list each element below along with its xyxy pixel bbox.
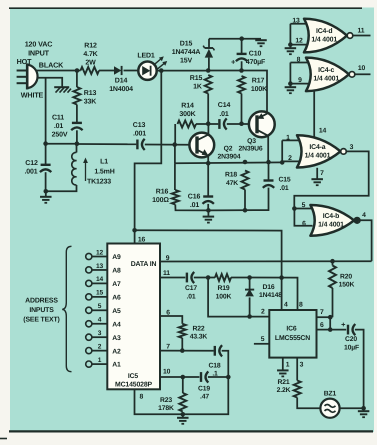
node IC4-a input junction — [280, 160, 285, 165]
wire R13 to C11 — [76, 105, 78, 123]
label MC145028P — [115, 381, 153, 388]
capacitor C14 — [219, 118, 226, 129]
resistor R21 — [294, 381, 301, 398]
resistor R15 — [205, 75, 212, 94]
svg-text:178K: 178K — [158, 405, 174, 412]
wire C18 right corner — [222, 351, 229, 377]
svg-text:2: 2 — [261, 308, 265, 315]
svg-text:A6: A6 — [112, 294, 121, 301]
svg-text:Q2: Q2 — [224, 146, 233, 153]
svg-text:R22: R22 — [192, 326, 204, 333]
label BLACK — [39, 61, 64, 70]
label 1 pin — [286, 362, 290, 369]
capacitor C12 — [40, 144, 51, 192]
wire address A5 — [92, 309, 107, 311]
node C16 bottom junction — [206, 208, 211, 213]
capacitor C16 — [203, 197, 214, 204]
svg-text:100Ω: 100Ω — [152, 197, 169, 204]
wire C19 right — [208, 376, 228, 378]
label 6 pin IC5 — [166, 310, 170, 317]
NOR gate IC4-c — [306, 58, 355, 92]
label R20 150K — [339, 273, 355, 288]
label LED1 — [137, 53, 155, 60]
label C14 .01 — [218, 102, 231, 118]
svg-text:5: 5 — [261, 336, 265, 343]
label D16 1N4148 — [259, 284, 282, 299]
svg-text:C11: C11 — [52, 115, 64, 122]
wire Q3 collector drop — [267, 136, 269, 162]
svg-text:.01: .01 — [219, 111, 229, 118]
label pin 2 — [288, 155, 292, 162]
svg-text:120 VAC: 120 VAC — [25, 40, 53, 49]
wire pin7-pin6 tie — [329, 317, 331, 329]
node R18 top junction — [243, 160, 248, 165]
svg-text:R16: R16 — [156, 189, 169, 196]
label R12 4.7K 2W — [83, 43, 97, 67]
label R18 47K — [225, 172, 238, 188]
ground IC4-c inputs — [285, 84, 297, 94]
svg-text:+: + — [231, 58, 236, 67]
IC box IC5 — [107, 244, 160, 390]
label ADDRESS INPUTS (SEE TEXT) — [23, 298, 59, 324]
resistor R17 — [238, 76, 245, 94]
svg-text:IC4-d: IC4-d — [316, 28, 332, 35]
wire white return — [46, 143, 77, 145]
node R14/base junction — [172, 142, 177, 147]
svg-text:BZ1: BZ1 — [324, 391, 337, 398]
svg-text:INPUTS: INPUTS — [29, 307, 54, 314]
node output 4 — [355, 218, 360, 223]
wire pin 6 — [317, 329, 331, 331]
wire D16 bottom — [249, 297, 251, 316]
svg-text:C10: C10 — [249, 51, 262, 58]
svg-text:11: 11 — [358, 27, 365, 34]
svg-text:D16: D16 — [262, 284, 274, 291]
svg-text:2W: 2W — [85, 60, 96, 67]
capacitor C11 — [71, 123, 82, 130]
node white/return T-junction — [43, 141, 48, 146]
wire pin 11 to C17 — [160, 277, 185, 279]
svg-text:43.3K: 43.3K — [190, 334, 208, 341]
label R19 100K — [216, 285, 232, 301]
svg-text:13: 13 — [96, 263, 104, 270]
wire address A4 — [92, 323, 107, 325]
label C15 .01 — [278, 177, 290, 193]
svg-text:300K: 300K — [179, 111, 195, 118]
svg-text:C16: C16 — [188, 194, 201, 201]
address input circle pin 4 — [86, 321, 92, 327]
wire C14 to Q3 base — [227, 123, 250, 125]
svg-text:7: 7 — [166, 343, 170, 350]
address input circle pin 15 — [86, 294, 92, 300]
svg-text:150K: 150K — [339, 282, 355, 289]
svg-text:R14: R14 — [181, 103, 194, 110]
wire R17 bottom — [241, 94, 243, 124]
label 120 VAC INPUT — [25, 40, 53, 58]
label pin 5 — [98, 303, 102, 310]
svg-text:2N39U6: 2N39U6 — [238, 146, 262, 153]
label A9 — [112, 254, 121, 261]
wire pin 5 — [294, 208, 312, 210]
svg-text:8: 8 — [140, 394, 144, 401]
wire neutral stub from plug — [37, 78, 63, 87]
node D16 bottom junction — [247, 314, 252, 319]
label 16 — [138, 236, 146, 243]
wire white drop — [45, 78, 47, 144]
label pin 12 — [96, 249, 104, 256]
wire pin 2 + bracket — [282, 140, 300, 162]
wire rail to Q3 collector — [242, 71, 268, 113]
wire buzzer right — [340, 407, 364, 409]
svg-text:250V: 250V — [52, 132, 68, 139]
svg-text:14: 14 — [96, 276, 104, 283]
svg-text:C15: C15 — [278, 177, 290, 184]
LED1 emission arrows — [154, 56, 168, 69]
svg-text:100K: 100K — [216, 294, 232, 301]
svg-text:A9: A9 — [112, 254, 121, 261]
resistor R16 — [172, 190, 179, 205]
wire C11 junction to C13 — [77, 143, 136, 145]
label pin 13 — [292, 17, 300, 24]
label A6 — [112, 294, 121, 301]
wire emitter rail — [175, 161, 282, 164]
svg-text:1N4004: 1N4004 — [109, 86, 133, 93]
wire pin 3 down — [296, 358, 298, 381]
label L1 1.5mH TK1233 — [87, 159, 115, 186]
label DATA IN — [131, 261, 157, 268]
svg-text:1/4 4001: 1/4 4001 — [311, 37, 337, 44]
wire address A3 — [92, 336, 107, 338]
wire Q2 collector — [207, 124, 209, 135]
panel bottom border — [9, 430, 373, 432]
node buzzer ground junction — [361, 406, 366, 411]
label pin 13 — [96, 263, 104, 270]
svg-text:14: 14 — [319, 127, 327, 134]
svg-text:IC5: IC5 — [128, 373, 138, 380]
label pin 3 — [98, 330, 102, 337]
svg-text:.01: .01 — [190, 202, 200, 209]
wire address A7 — [92, 282, 107, 284]
wire LED1 right — [157, 70, 209, 72]
label pin 5 — [302, 202, 306, 209]
wire C16 column — [207, 163, 209, 196]
svg-text:IC4-a: IC4-a — [309, 144, 325, 151]
svg-text:DATA IN: DATA IN — [131, 261, 157, 268]
svg-text:L1: L1 — [100, 159, 108, 166]
label A8 — [112, 268, 121, 275]
label pin 9 — [298, 77, 302, 84]
label 8 pin IC5 — [140, 394, 144, 401]
wire pin 12 + bracket — [290, 24, 306, 45]
svg-text:A7: A7 — [112, 281, 121, 288]
svg-text:1N4148: 1N4148 — [259, 292, 282, 299]
svg-text:R15: R15 — [190, 75, 203, 82]
svg-text:4: 4 — [284, 302, 288, 309]
node R23 bottom junction — [181, 412, 186, 417]
label R23 178K — [158, 397, 174, 412]
transistor Q3 — [249, 111, 275, 137]
label Q3 2N3906 — [238, 138, 262, 153]
svg-text:12: 12 — [295, 37, 303, 44]
svg-text:2.2K: 2.2K — [277, 387, 291, 394]
svg-text:LED1: LED1 — [137, 53, 155, 60]
svg-text:C17: C17 — [185, 285, 197, 292]
svg-text:R12: R12 — [84, 43, 97, 50]
label R22 43.3K — [190, 326, 208, 341]
wire pin4 drop — [281, 278, 283, 310]
label HOT — [17, 57, 32, 66]
label R14 300K — [179, 103, 195, 119]
svg-text:1N4744A: 1N4744A — [172, 49, 201, 56]
wire output 10 — [355, 73, 371, 75]
wire output 3 feedback — [294, 151, 368, 208]
wire pin 13 — [290, 23, 306, 25]
svg-text:2: 2 — [98, 343, 102, 350]
svg-text:A4: A4 — [112, 321, 121, 328]
wire C17 to R19 — [194, 277, 215, 279]
svg-text:15V: 15V — [180, 58, 192, 65]
svg-text:3: 3 — [98, 330, 102, 337]
wire D14 to LED1 — [124, 70, 139, 72]
label 4 — [362, 212, 366, 219]
label C20 plus — [341, 320, 346, 329]
node IC4-b input junction — [292, 206, 297, 211]
node emitter/C16 junction — [206, 161, 211, 166]
label pin 15 — [96, 290, 104, 297]
diode D16 1N4148 — [245, 289, 254, 296]
svg-text:.47: .47 — [200, 394, 209, 401]
ground top rail — [255, 40, 267, 46]
wire D16 column top — [249, 278, 251, 290]
capacitor C17 — [187, 272, 194, 283]
svg-text:33K: 33K — [84, 99, 96, 106]
label 5 pin — [261, 336, 265, 343]
wire R14 left drop — [174, 124, 176, 145]
wire trigger row — [208, 278, 269, 317]
ground C16 — [203, 210, 215, 222]
node pin6 junction — [328, 327, 333, 332]
wire top rail — [209, 38, 261, 40]
wire pin6 to C20 — [330, 329, 346, 331]
svg-text:WHITE: WHITE — [21, 91, 44, 100]
node R17/Q3 base junction — [239, 121, 244, 126]
address input circle pin 12 — [86, 253, 92, 259]
L1 adjustment arrow — [83, 158, 88, 182]
resistor R14 — [178, 121, 197, 128]
node R20 top junction — [330, 259, 335, 264]
node R22 bottom junction — [180, 348, 185, 353]
node pin4 column junction — [279, 275, 284, 280]
svg-text:R20: R20 — [340, 273, 352, 280]
svg-text:A2: A2 — [112, 348, 121, 355]
svg-text:MC145028P: MC145028P — [115, 381, 153, 388]
wire rail to C10 column — [208, 70, 241, 72]
svg-text:IC4-b: IC4-b — [323, 213, 339, 220]
svg-text:1K: 1K — [193, 84, 202, 91]
wire R22 bottom — [181, 338, 183, 351]
wire pin 5 stub — [254, 343, 269, 345]
svg-text:1/4 4001: 1/4 4001 — [318, 221, 344, 228]
label R16 100ohm — [152, 189, 169, 205]
svg-text:11: 11 — [163, 270, 170, 277]
wire R20 bottom — [330, 288, 332, 317]
label C19 .47 — [198, 385, 210, 400]
svg-text:C19: C19 — [198, 385, 210, 392]
wire C12 to L1 bottom — [46, 185, 77, 191]
svg-text:100K: 100K — [251, 86, 267, 93]
label pin 8 — [297, 56, 301, 63]
svg-text:A5: A5 — [112, 308, 121, 315]
address input circle pin 2 — [86, 348, 92, 354]
svg-text:R21: R21 — [277, 379, 289, 386]
wire pin 6 to R22 — [160, 316, 182, 324]
ground IC4-d inputs — [285, 45, 297, 55]
label R21 2.2K — [277, 379, 291, 394]
node IC4-c input ground junction — [288, 81, 293, 86]
label A5 — [112, 308, 121, 315]
svg-text:1/4 4001: 1/4 4001 — [313, 75, 339, 82]
svg-text:D14: D14 — [115, 78, 128, 85]
label pin 14 — [96, 276, 104, 283]
svg-text:.001: .001 — [24, 169, 37, 176]
buzzer BZ1 — [320, 399, 339, 418]
IC box IC6 — [269, 310, 316, 358]
wire VDD branch — [135, 230, 282, 277]
capacitor C18 — [215, 345, 222, 356]
address input circle pin 1 — [86, 361, 92, 367]
label A1 — [112, 362, 121, 369]
label LMC555CN — [275, 335, 310, 342]
wire R14 to C14 — [196, 123, 218, 125]
label A3 — [112, 335, 121, 342]
label 4 pin — [284, 302, 288, 309]
resistor R12 — [81, 67, 100, 74]
label R13 33K — [84, 90, 97, 106]
svg-text:4.7K: 4.7K — [83, 51, 97, 58]
label pin 7 IC4-a — [320, 170, 324, 177]
svg-text:.01: .01 — [187, 294, 196, 301]
svg-text:A1: A1 — [112, 362, 121, 369]
label 7 pin IC5 — [166, 343, 170, 350]
svg-text:IC4-c: IC4-c — [318, 67, 334, 74]
svg-text:A8: A8 — [112, 268, 121, 275]
wire R23 top — [182, 377, 184, 393]
wire Q2 emitter drop — [207, 156, 209, 164]
resistor R22 — [179, 324, 186, 338]
node C19 right junction — [226, 375, 231, 380]
wire pin 14 VDD — [313, 92, 315, 137]
svg-text:10µF: 10µF — [344, 344, 359, 351]
svg-text:4: 4 — [98, 317, 102, 324]
svg-text:D15: D15 — [180, 41, 193, 48]
svg-text:8: 8 — [299, 302, 303, 309]
label C20 10uF — [344, 336, 359, 352]
svg-text:16: 16 — [138, 236, 146, 243]
label Q2 2N3904 — [218, 146, 241, 161]
wire pin 9 rail — [160, 260, 372, 262]
svg-text:C12: C12 — [25, 160, 38, 167]
ground R23 — [177, 414, 189, 424]
svg-text:TK1233: TK1233 — [87, 179, 111, 186]
svg-text:1: 1 — [98, 357, 102, 364]
svg-text:47K: 47K — [226, 180, 238, 187]
resistor R20 — [329, 266, 336, 289]
NOR gate IC4-d — [304, 19, 353, 53]
node C12 bottom junction — [44, 189, 49, 194]
svg-text:7: 7 — [320, 309, 324, 316]
capacitor C15 — [263, 162, 274, 188]
label 11 pin — [163, 270, 170, 277]
svg-text:10: 10 — [163, 368, 171, 375]
wire R18 bottom — [244, 190, 246, 211]
label A2 — [112, 348, 121, 355]
node R15/Q2 collector junction — [206, 121, 211, 126]
wire bottom row to C15 — [209, 188, 269, 211]
node C11/L1 junction — [75, 141, 80, 146]
wire R13 top — [76, 71, 78, 88]
svg-text:ADDRESS: ADDRESS — [25, 298, 58, 305]
node R23 top junction — [181, 375, 186, 380]
svg-text:LMC555CN: LMC555CN — [275, 335, 310, 342]
label pin 2 — [98, 343, 102, 350]
label pin 12 — [295, 37, 303, 44]
resistor R23 — [179, 393, 186, 412]
wire output 11 — [353, 35, 371, 37]
wire R20 top — [332, 261, 334, 265]
svg-text:470µF: 470µF — [246, 59, 266, 66]
wire base-node drop to rail — [174, 145, 176, 164]
svg-text:C20: C20 — [345, 336, 357, 343]
svg-text:3: 3 — [300, 362, 304, 369]
svg-text:Q3: Q3 — [247, 138, 256, 145]
wire pin 6 + bracket — [294, 209, 312, 226]
label WHITE — [21, 91, 44, 100]
address inputs brace — [62, 246, 71, 371]
label C16 .01 — [188, 194, 201, 210]
wire C11 bottom — [76, 130, 78, 143]
label D15 1N4744A 15V — [172, 41, 201, 65]
node C10 top junction — [239, 36, 244, 41]
label R17 100K — [251, 78, 267, 94]
svg-text:R18: R18 — [225, 172, 237, 179]
label C11 .01 250V — [52, 115, 68, 139]
svg-text:IC6: IC6 — [286, 326, 296, 333]
node pin7/R20 junction — [328, 315, 333, 320]
label 10 pin IC5 — [163, 368, 171, 375]
svg-text:12: 12 — [96, 249, 104, 256]
wire R19 to D16 to pin4/8 column — [231, 278, 298, 311]
diode D14 — [114, 66, 122, 75]
label 9 — [166, 255, 170, 262]
transistor Q2 — [189, 133, 214, 158]
svg-text:1.5mH: 1.5mH — [94, 169, 114, 176]
wire address A8 — [92, 269, 107, 271]
svg-text:(SEE TEXT): (SEE TEXT) — [23, 316, 59, 323]
wire R12 to D14 — [99, 70, 114, 72]
wire pin 7 to C18 — [160, 350, 214, 352]
resistor R18 — [242, 171, 249, 190]
AC plug P1 — [17, 63, 38, 89]
svg-text:15: 15 — [96, 290, 104, 297]
svg-text:3: 3 — [350, 144, 354, 151]
wire zener stub top — [208, 39, 210, 49]
node C15 top junction — [266, 160, 271, 165]
node C10/R17 junction — [239, 68, 244, 73]
node D15/R15 junction — [206, 68, 211, 73]
svg-text:1/4 4001: 1/4 4001 — [305, 152, 331, 159]
panel top border — [9, 7, 362, 9]
label D14 1N4004 — [109, 78, 133, 94]
